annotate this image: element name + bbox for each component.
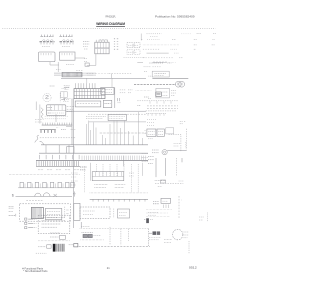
label bits <box>148 213 158 216</box>
terminal block top line <box>41 144 148 146</box>
terminal labels row <box>38 169 80 171</box>
wire stubs right <box>67 106 75 111</box>
wire labels <box>174 144 180 147</box>
dotted separator rule <box>3 27 216 29</box>
fuse F2 box <box>134 43 140 48</box>
module M3 box <box>103 100 112 107</box>
bracket box <box>74 203 80 220</box>
wire marks <box>145 131 147 134</box>
wire drop <box>123 164 125 172</box>
wire <box>138 112 140 145</box>
component marks <box>158 185 162 187</box>
relay K2 box <box>60 52 76 60</box>
chamfer corner wire <box>40 142 45 145</box>
wire <box>167 150 187 152</box>
machine compartment dashed box <box>20 204 71 221</box>
thermostat box <box>161 198 171 203</box>
wire label <box>148 98 151 100</box>
dashed wire <box>176 158 178 176</box>
svg-text:$: $ <box>12 192 15 197</box>
dotted rule <box>38 240 70 242</box>
wire <box>73 145 75 228</box>
wire <box>35 102 37 111</box>
module M2 box <box>75 101 101 107</box>
wire <box>66 126 72 128</box>
component marks <box>148 138 153 140</box>
fan motor M5 <box>162 150 167 155</box>
dashed wire <box>143 48 196 50</box>
wire <box>140 34 142 41</box>
compressor internals <box>184 232 189 238</box>
vertical label col <box>207 213 209 222</box>
water valve V1 circle <box>43 93 51 101</box>
wire <box>88 121 90 145</box>
model number text <box>106 14 116 18</box>
info box <box>108 114 126 120</box>
wire dashes <box>35 120 44 122</box>
wire label column <box>120 90 133 93</box>
module pin labels <box>115 184 126 187</box>
harness trunk <box>72 99 73 145</box>
switch bank S1 value label <box>42 46 50 48</box>
wire <box>104 138 106 145</box>
fuse F3 box <box>127 50 133 55</box>
wire <box>123 156 125 167</box>
dashed wire <box>40 137 76 139</box>
dotted wire <box>143 44 215 46</box>
wire label <box>66 98 69 100</box>
component label <box>149 62 171 64</box>
note text lines <box>42 217 66 219</box>
thermostat marks <box>148 156 154 163</box>
run capacitor boxes <box>153 231 161 235</box>
publication number text <box>155 14 195 18</box>
wire <box>113 121 115 145</box>
label dashes <box>147 120 156 126</box>
dashed wire <box>26 200 43 202</box>
defrost heater cluster <box>82 232 102 237</box>
wire drop <box>116 164 118 176</box>
footnote functional parts <box>22 267 43 271</box>
terminal cells row <box>18 182 74 188</box>
wire drop <box>102 164 104 176</box>
dispenser module box <box>92 172 124 181</box>
wire drop <box>109 164 111 176</box>
console dashed box <box>38 215 70 233</box>
note text lines <box>42 223 61 225</box>
dashed wire <box>146 110 177 112</box>
component marks <box>171 90 176 95</box>
dotted cabinet line <box>90 192 148 194</box>
wire <box>90 163 92 181</box>
bus wire dashed <box>88 113 146 115</box>
switch bank labels <box>41 35 74 37</box>
inner marks <box>83 211 95 215</box>
switch contact arcs <box>35 193 50 196</box>
svg-text:FPHS2611PL: FPHS2611PL <box>106 14 116 18</box>
part label row <box>38 245 51 248</box>
corner marks <box>56 69 61 71</box>
dash row <box>36 252 47 254</box>
component marks <box>48 107 53 113</box>
terminal strip TS2 <box>42 123 73 128</box>
wire label <box>144 96 149 98</box>
wire <box>39 105 41 124</box>
fan motor marks <box>152 150 159 153</box>
footnote non-illustrated <box>23 269 48 273</box>
wire <box>101 135 103 145</box>
wire <box>142 138 144 145</box>
switch SW1 box <box>147 129 156 136</box>
switch lever wire <box>16 196 73 198</box>
wire <box>95 128 97 145</box>
revision code <box>189 266 197 270</box>
dots row <box>146 210 172 217</box>
dotted cabinet line <box>9 173 80 175</box>
terminal block line 4 <box>36 165 80 167</box>
icemaker box <box>156 88 170 98</box>
aux switch box <box>166 128 174 134</box>
module marks right <box>129 173 134 176</box>
dashed wire <box>124 57 146 59</box>
capacitor C1 box <box>45 208 61 219</box>
junction box <box>85 63 89 66</box>
wire labels <box>71 173 78 185</box>
dashed wire <box>188 241 190 254</box>
legend item <box>25 222 37 224</box>
component marks <box>65 207 69 217</box>
wire marks below <box>63 99 71 102</box>
wire drop <box>96 164 98 172</box>
defrost heater label <box>155 180 166 183</box>
note text lines <box>42 226 57 228</box>
relay K1 box <box>39 52 56 62</box>
wire <box>87 54 96 66</box>
terminal block line 2 <box>39 152 148 154</box>
wire <box>75 57 85 59</box>
module pin labels <box>94 184 107 187</box>
wire marks <box>81 226 90 228</box>
wire <box>152 77 188 79</box>
dashed wire <box>147 108 178 110</box>
terminal block drops <box>46 145 69 153</box>
aux box <box>118 209 130 218</box>
wire <box>181 158 183 162</box>
wire arrow <box>149 232 152 234</box>
dotted wire <box>81 239 105 241</box>
wire label column <box>180 121 186 124</box>
compressor circle <box>173 229 183 239</box>
terminal block dense pins <box>37 161 79 166</box>
wire <box>116 121 118 145</box>
wire from relay K1 <box>50 62 59 65</box>
wire stub marks <box>84 59 87 62</box>
wire <box>90 130 92 145</box>
page number <box>107 266 110 270</box>
wire marks column <box>9 214 16 217</box>
svg-text:21: 21 <box>107 266 110 270</box>
start relay S mark <box>35 135 39 142</box>
connector J1 block <box>95 42 109 54</box>
wire <box>155 158 157 177</box>
wire label row <box>144 66 162 68</box>
switch SW2 box <box>157 129 164 136</box>
cabinet bottom boundary <box>79 245 150 247</box>
wire <box>127 131 129 145</box>
terminal block sparse pins <box>40 155 80 159</box>
wire labels <box>199 217 204 220</box>
wire marks <box>71 129 76 131</box>
wire <box>120 128 122 145</box>
pins above control board <box>75 83 95 88</box>
terminal block line 3 <box>36 160 148 162</box>
wire label noise <box>45 116 69 119</box>
wire marks column <box>9 207 14 209</box>
wire <box>100 132 146 134</box>
label text <box>50 232 60 234</box>
wire stub dashes <box>66 64 74 66</box>
component label <box>50 85 55 87</box>
wire label <box>148 75 152 77</box>
part label right <box>69 244 78 247</box>
dashed wire <box>127 229 129 241</box>
wire drop <box>111 78 113 87</box>
terminal block dense pins right <box>82 156 146 161</box>
terminal block inset box <box>67 147 74 154</box>
dashed wire <box>169 134 181 152</box>
dashed wire <box>137 101 178 104</box>
wire <box>164 158 166 176</box>
wire <box>114 87 116 108</box>
wire <box>109 124 111 145</box>
note text lines <box>42 220 66 222</box>
wire labels <box>80 167 87 170</box>
wire label row <box>141 39 215 41</box>
wire <box>111 74 113 79</box>
component marks <box>118 98 121 103</box>
dispenser box <box>152 71 169 77</box>
wire label <box>73 192 75 197</box>
component label <box>80 167 87 170</box>
wire <box>86 73 132 75</box>
ribbon cable band <box>54 73 96 75</box>
connector J1 label <box>99 39 109 41</box>
control board CN2 block <box>74 89 105 99</box>
dashed wire <box>59 93 61 102</box>
legend item <box>25 227 37 229</box>
bus wire <box>66 110 146 112</box>
wire label column <box>114 39 119 49</box>
contact marks <box>54 194 57 197</box>
wire drop <box>137 164 139 193</box>
cabinet dashed boundary <box>80 228 149 230</box>
connector stub box <box>61 89 68 98</box>
connector CB box <box>47 105 66 116</box>
wire drop <box>86 78 88 83</box>
svg-text:WIRING DIAGRAM: WIRING DIAGRAM <box>96 22 125 26</box>
wire dashes <box>113 209 115 219</box>
dashed wire <box>109 227 111 245</box>
wire <box>80 222 82 228</box>
switch bank S1 contacts <box>40 40 55 45</box>
heater coil R1 <box>41 108 43 119</box>
legend item <box>25 218 37 220</box>
wire label row <box>147 33 217 35</box>
wire label column right of switches <box>83 42 90 50</box>
wire dashes <box>76 69 83 71</box>
capacitor labels <box>149 237 161 239</box>
wire dashes <box>128 45 139 52</box>
barcode <box>53 244 65 252</box>
right edge marks <box>142 154 148 162</box>
wire marks column <box>9 211 13 213</box>
wire <box>57 62 59 72</box>
connector CN3 block <box>101 87 114 94</box>
switch bank S2 value label <box>62 46 70 48</box>
terminal rail <box>90 199 148 201</box>
svg-text:* Non-Illustrated Parts: * Non-Illustrated Parts <box>23 269 48 273</box>
compressor lead dashes <box>179 196 183 218</box>
dashed wire <box>185 142 187 148</box>
switch bank S2 contacts <box>60 40 75 45</box>
cabinet right boundary <box>148 229 150 247</box>
wire <box>93 122 95 145</box>
wire marks <box>137 104 140 106</box>
wire drop <box>84 166 86 193</box>
overload T contacts <box>40 130 66 133</box>
dashed wire <box>155 181 183 183</box>
dashed wire <box>120 229 122 246</box>
dotted wire <box>136 89 152 91</box>
wire <box>147 52 180 54</box>
wire labels <box>65 87 70 89</box>
component bars <box>144 218 154 223</box>
dark dashed bus <box>134 84 176 86</box>
fuse F1 box <box>127 43 133 48</box>
wire <box>55 114 57 122</box>
dashed wire <box>143 57 183 59</box>
motor M4 hatched box <box>31 207 43 218</box>
label text rows <box>164 240 172 243</box>
component pins <box>164 205 169 209</box>
timer module T1 hatched box <box>62 72 82 77</box>
wire <box>85 124 87 145</box>
wire <box>137 62 143 64</box>
note text <box>86 116 106 118</box>
dashed ticks row <box>146 113 166 115</box>
wire label bits <box>150 36 158 38</box>
svg-text:0512: 0512 <box>189 266 197 270</box>
title WIRING DIAGRAM <box>96 22 125 26</box>
wire label left <box>64 85 70 88</box>
svg-text:Publication No: 5995582409: Publication No: 5995582409 <box>155 14 195 18</box>
wire <box>132 136 134 145</box>
terminal lug row <box>153 61 177 62</box>
connector J1 pins <box>96 40 107 42</box>
fuse F4 box <box>134 50 140 55</box>
wire <box>89 121 146 123</box>
lamp L1 L2 circles <box>175 81 184 87</box>
title underline <box>96 25 125 27</box>
wire <box>124 121 126 145</box>
dashed wire <box>185 129 187 150</box>
wire stub <box>61 98 64 101</box>
dashed wire <box>147 105 178 107</box>
overload marks <box>153 202 159 204</box>
wire label <box>144 71 147 73</box>
wire <box>142 163 144 176</box>
start relay symbol <box>12 192 15 197</box>
machine dashed box 2 <box>80 207 110 218</box>
long bus wire <box>61 77 146 79</box>
label and box <box>50 235 65 239</box>
wire drop <box>131 164 133 193</box>
